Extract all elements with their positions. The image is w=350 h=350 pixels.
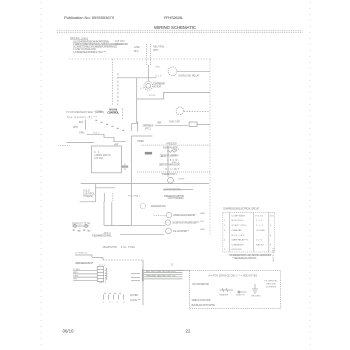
left tear perforation line — [40, 2, 42, 348]
svg-text:(PTC): (PTC) — [145, 128, 151, 131]
svg-text:115: 115 — [256, 220, 263, 222]
svg-text:BLK: BLK — [79, 121, 84, 124]
svg-text:FF: FF — [94, 152, 100, 154]
wire branch — [96, 187, 115, 189]
start relay pictograph — [131, 122, 137, 132]
svg-text:WATER: WATER — [130, 294, 138, 297]
connector circle 1 — [140, 203, 146, 209]
dispenser wire 3 — [73, 276, 97, 278]
svg-text:60 HZ: 60 HZ — [115, 42, 122, 46]
wire compressor feed — [147, 65, 149, 81]
svg-text:FAN *: FAN * — [179, 178, 187, 181]
svg-text:SEE NOTE: SEE NOTE — [271, 248, 273, 263]
svg-text:FFHS2624L: FFHS2624L — [164, 15, 184, 20]
svg-text:4 CKT HARNESS: 4 CKT HARNESS — [168, 197, 184, 200]
svg-text:OVERLOAD RELAY: OVERLOAD RELAY — [178, 75, 200, 78]
svg-text:GRN BRN TAN PNK GRY VIO: GRN BRN TAN PNK GRY VIO — [146, 274, 176, 277]
svg-text:BLK=BLACK WHT=WHITE: BLK=BLACK WHT=WHITE — [192, 304, 216, 307]
svg-text:CONTROL: CONTROL — [107, 111, 119, 115]
svg-text:P20: P20 — [99, 265, 106, 267]
wire ladder to harness — [103, 259, 143, 261]
svg-text:START RELAY PTC: START RELAY PTC — [232, 239, 249, 242]
svg-text:EVAPORATOR FAN: EVAPORATOR FAN — [164, 189, 181, 192]
svg-text:P5 CONN 2: P5 CONN 2 — [128, 196, 141, 198]
connector circle 4 — [166, 228, 172, 234]
svg-text:CLOSED: CLOSED — [256, 230, 265, 232]
svg-text:ADC: ADC — [161, 155, 166, 158]
svg-text:ORN: ORN — [79, 132, 85, 135]
svg-text:BLK WHT ORN YEL RED BLU: BLK WHT ORN YEL RED BLU — [146, 271, 176, 273]
wire to circle 3 — [120, 234, 164, 236]
svg-text:COMPRESSOR ELECTRICAL CIRCUIT: COMPRESSOR ELECTRICAL CIRCUIT — [223, 207, 260, 210]
svg-text:DK GRN/YEL: DK GRN/YEL — [265, 281, 279, 283]
svg-text:REF: REF — [157, 122, 162, 124]
svg-text:VOLTS: VOLTS — [255, 216, 264, 218]
svg-text:COMPONENT: COMPONENT — [232, 216, 247, 218]
svg-text:ICEMAKER FAN: ICEMAKER FAN — [151, 205, 166, 208]
evaporator chain stack — [167, 146, 169, 177]
svg-text:HI-LIMIT: HI-LIMIT — [166, 169, 180, 171]
svg-text:SWITCH: SWITCH — [236, 295, 245, 297]
wire to edge — [197, 123, 210, 125]
svg-text:Publication No: 5995553679: Publication No: 5995553679 — [64, 15, 115, 20]
svg-text:GROUND: GROUND — [232, 249, 242, 251]
wire under fan — [163, 189, 193, 191]
dispenser ladder wires — [75, 255, 103, 260]
wire main control out stepped — [87, 134, 127, 141]
fresh food section box — [92, 146, 122, 173]
svg-text:GROUND: GROUND — [266, 284, 276, 286]
connector circle 3 — [165, 220, 170, 225]
run capacitor circle — [176, 107, 184, 115]
svg-text:06/10: 06/10 — [63, 328, 75, 333]
svg-text:VALVE ***: VALVE *** — [130, 299, 140, 302]
left cabinet dashes — [60, 144, 70, 146]
freezer fan motor circle — [168, 177, 174, 183]
svg-text:COMP MOTOR: COMP MOTOR — [232, 245, 244, 247]
wire timer top — [131, 135, 152, 137]
svg-text:RUN WDG: RUN WDG — [232, 220, 244, 222]
svg-text:240: 240 — [256, 240, 263, 242]
svg-text:LT BLU: LT BLU — [73, 269, 81, 271]
legend symbol resistor — [220, 288, 234, 292]
svg-text:AUGER MOTOR DISPENSER ***: AUGER MOTOR DISPENSER *** — [172, 222, 199, 225]
svg-text:COMPRESSOR: COMPRESSOR — [153, 83, 165, 85]
svg-text:NO: NO — [270, 216, 274, 218]
svg-text:TML: TML — [155, 67, 161, 69]
dashed lead to water valve — [154, 214, 166, 216]
wire compressor run to edge — [164, 91, 211, 93]
svg-text:MULLION HTR: MULLION HTR — [103, 246, 117, 249]
inline component — [189, 122, 197, 127]
svg-text:ICE CRUSHER **: ICE CRUSHER ** — [173, 231, 189, 233]
svg-text:DEFROST TSTAT: DEFROST TSTAT — [72, 223, 91, 226]
freezer boundary dashed — [137, 171, 210, 173]
cabinet boundary dashed line right — [209, 59, 211, 235]
svg-text:5. DISPENSER MODELS ONLY ***: 5. DISPENSER MODELS ONLY *** — [73, 51, 106, 54]
power cord connector — [147, 44, 151, 65]
header double dashed rule — [57, 30, 303, 32]
svg-text:WATER VALVE SOLENOID *: WATER VALVE SOLENOID * — [173, 214, 196, 217]
compressor compartment dashed bottom — [141, 144, 210, 146]
legend box — [190, 270, 281, 308]
svg-text:TIMER: TIMER — [137, 140, 144, 143]
svg-text:RED 4: RED 4 — [172, 162, 180, 164]
svg-text:WHT: WHT — [153, 49, 159, 52]
svg-text:RUN CAP: RUN CAP — [232, 234, 246, 237]
svg-text:DEFROST THERMOSTAT: DEFROST THERMOSTAT — [159, 164, 181, 167]
wire to run capacitor — [118, 77, 157, 79]
svg-text:ST: ST — [140, 88, 145, 90]
svg-text:(THERM): (THERM) — [83, 195, 93, 198]
svg-text:WHT: WHT — [73, 126, 79, 129]
operation table box — [223, 212, 275, 252]
svg-text:** SEE SERIAL PLATE DATA: ** SEE SERIAL PLATE DATA — [232, 257, 256, 260]
wire to circle 4 — [120, 224, 166, 226]
defrost thermostat symbols — [72, 225, 89, 228]
svg-text:ORN: ORN — [73, 275, 78, 277]
svg-text:GRN: GRN — [200, 213, 205, 215]
svg-text:START WDG: START WDG — [232, 224, 247, 227]
wire drops left — [103, 202, 105, 226]
svg-text:RATED: RATED — [256, 244, 264, 247]
svg-text:LINE: LINE — [134, 46, 140, 49]
wire drop from bus — [95, 184, 97, 202]
lamp switch top corner — [114, 143, 118, 145]
wire harness drop — [85, 120, 87, 130]
svg-text:RUN CAP: RUN CAP — [169, 121, 180, 124]
wire id cascade marks — [95, 120, 124, 131]
svg-text:* COMPRESSOR START COMPONENTS: * COMPRESSOR START COMPONENTS IN COMPART… — [229, 254, 273, 257]
wire riser to run line — [163, 92, 165, 99]
svg-text:WIRE COLOR CODE: WIRE COLOR CODE — [192, 300, 211, 302]
wire bus lower — [81, 183, 209, 185]
harness tail to ice maker — [177, 269, 190, 271]
connector circle 2 — [166, 212, 171, 217]
svg-text:GROUND: GROUND — [251, 296, 261, 298]
svg-text:BLK 1: BLK 1 — [172, 155, 180, 157]
svg-text:RUN: RUN — [149, 95, 155, 97]
svg-text:115 VAC: 115 VAC — [94, 157, 103, 160]
overload protector circle — [168, 67, 177, 76]
harness vertical run — [142, 260, 144, 305]
dispenser wire 4 — [73, 279, 97, 281]
svg-text:1 CKT CONNECTOR: 1 CKT CONNECTOR — [192, 284, 210, 286]
legend symbol ground — [252, 284, 258, 293]
harness connector ticks — [131, 274, 140, 281]
harness connector junction — [142, 269, 144, 281]
right tear perforation line — [309, 2, 311, 348]
terminal strip symbols — [104, 295, 124, 300]
wire lower left run — [66, 141, 94, 143]
svg-text:WIRING SCHEMATIC: WIRING SCHEMATIC — [154, 25, 196, 30]
dispenser wire 2 — [73, 273, 97, 275]
wire drop pair A — [103, 193, 105, 202]
wire neutral drop — [117, 73, 119, 105]
svg-text:TO DISPENSER [SEE *] CONN: TO DISPENSER [SEE *] CONN — [66, 111, 104, 114]
compressor motor circles — [144, 81, 153, 90]
svg-text:BLK: BLK — [134, 50, 139, 53]
svg-text:A = FOR SERVICE ONLY / * = SEE: A = FOR SERVICE ONLY / * = SEE NOTES — [208, 275, 257, 278]
wire main vertical — [130, 136, 132, 225]
svg-text:SCREWS: SCREWS — [266, 287, 277, 289]
heater zigzag — [167, 150, 177, 152]
wire branch horizontal — [137, 98, 164, 100]
svg-text:MOTOR: MOTOR — [153, 86, 161, 88]
terminal block cell — [145, 152, 152, 155]
wire overload to cabinet edge — [177, 70, 210, 72]
svg-text:GRY 9: GRY 9 — [99, 282, 107, 284]
svg-text:BRN: BRN — [73, 272, 78, 274]
svg-text:TO ICEMAKER CONTROL: TO ICEMAKER CONTROL — [92, 235, 113, 238]
svg-text:THERMOSTAT 2: THERMOSTAT 2 — [161, 173, 177, 176]
connector pin column — [122, 109, 124, 120]
wire relay to component — [155, 125, 188, 127]
wire across bottom — [104, 224, 131, 226]
legend symbol switch — [238, 291, 247, 293]
cabinet boundary dashed line top — [69, 58, 210, 60]
door switch symbol — [121, 164, 128, 171]
svg-text:OLP: OLP — [156, 75, 163, 77]
wire compressor branch down — [136, 78, 138, 123]
svg-text:OVERLOAD: OVERLOAD — [232, 229, 242, 232]
svg-text:LAMPS 40W (2): LAMPS 40W (2) — [94, 154, 111, 157]
svg-text:GND: GND — [200, 229, 205, 231]
wire drop pair B — [112, 193, 114, 202]
wire L1 drop — [111, 59, 113, 105]
svg-text:DISPENSER CONTROL ***: DISPENSER CONTROL *** — [75, 263, 93, 265]
dispenser terminal block — [97, 267, 107, 282]
svg-text:ORN 3: ORN 3 — [172, 149, 180, 151]
svg-text:See footnote (5) ***: See footnote (5) *** — [67, 116, 97, 119]
svg-text:HEATER: HEATER — [220, 294, 229, 297]
harness bundle wires — [144, 271, 183, 279]
svg-text:22: 22 — [186, 328, 191, 333]
wire capacitor to edge — [184, 111, 210, 113]
svg-text:LT GRN 14: LT GRN 14 — [75, 252, 88, 254]
wire across — [80, 201, 96, 203]
svg-text:FILL TUBE: FILL TUBE — [121, 246, 135, 249]
defrost thermostat second row — [73, 230, 91, 232]
dispenser wire 1 — [73, 270, 97, 272]
